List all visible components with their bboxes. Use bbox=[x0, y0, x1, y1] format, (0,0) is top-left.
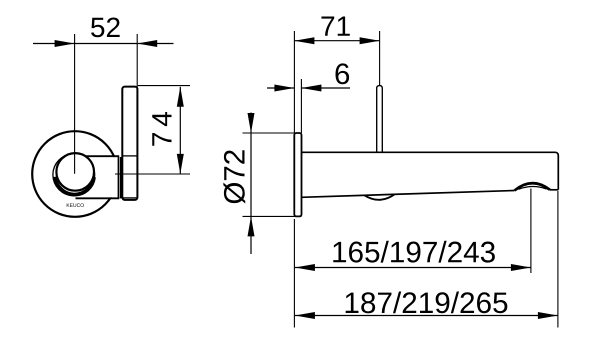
wall plate (left view, side profile) bbox=[122, 87, 137, 200]
dimension 165/197/243 label bbox=[333, 241, 495, 263]
dimension diameter 72 top extension bbox=[243, 132, 295, 134]
dimension 74 arrow down bbox=[177, 154, 184, 174]
dimension 74 arrow up bbox=[177, 87, 184, 107]
extension line spout tip bbox=[557, 191, 559, 328]
dimension 187/219/265 arrow left bbox=[295, 312, 315, 319]
wall plate (right view, spout escutcheon) bbox=[294, 133, 301, 216]
dimension 71 extension line right bbox=[379, 31, 381, 86]
cartridge stem rod bbox=[377, 86, 383, 153]
dimension diameter 72 bottom extension bbox=[243, 215, 302, 217]
dimension 71 extension line left bbox=[293, 31, 295, 133]
dimension 71 label bbox=[321, 17, 349, 36]
dimension 74 label (rotated) bbox=[152, 112, 171, 146]
dimension 165/197/243 arrow left bbox=[295, 264, 315, 271]
dimension diameter 72 arrow down bbox=[248, 113, 255, 133]
dimension diameter 72 line bbox=[250, 113, 252, 255]
dimension diameter 72 label (rotated) bbox=[223, 150, 245, 203]
spout bottom edge bbox=[302, 191, 515, 198]
knob outer rim circle bbox=[53, 154, 95, 196]
spout outlet hump inner line bbox=[519, 186, 547, 189]
dimension 165/197/243 arrow right bbox=[511, 264, 531, 271]
dimension 6 label bbox=[335, 63, 349, 84]
spout bottom edge at tip bbox=[550, 189, 558, 191]
knob face circle bbox=[56, 153, 94, 191]
dimension 6 left tail with arrow bbox=[267, 87, 294, 89]
dimension 187/219/265 arrow right bbox=[538, 312, 558, 319]
shadow gap between lever and wall plate bbox=[120, 157, 123, 198]
dimension 74 top extension line bbox=[138, 85, 190, 87]
dimension 52 label bbox=[91, 17, 120, 37]
dimension 52 extension line right bbox=[136, 34, 138, 87]
dimension 74 line bbox=[179, 87, 181, 174]
horizontal centerline of handle bbox=[115, 173, 190, 175]
dimension 52 arrow left bbox=[55, 40, 75, 47]
dimension 71 arrow left bbox=[294, 37, 314, 44]
dimension 52 line bbox=[33, 43, 174, 45]
dimension 6 extension line bbox=[300, 79, 302, 133]
dimension 187/219/265 label bbox=[346, 291, 508, 313]
dimension diameter 72 arrow up bbox=[248, 216, 255, 236]
dimension 165/197/243 line bbox=[295, 267, 531, 269]
aerator arc under spout bbox=[365, 194, 395, 199]
plate interior line bottom bbox=[123, 197, 138, 199]
extension line outlet center bbox=[530, 189, 532, 274]
spout outlet hump bbox=[515, 183, 551, 190]
dimension 71 line bbox=[294, 40, 379, 42]
dimension 6 right tail with arrow bbox=[301, 87, 350, 89]
dimension 52 arrow right bbox=[137, 40, 157, 47]
dimension 187/219/265 line bbox=[295, 315, 558, 317]
extension line wall face bottom bbox=[293, 219, 295, 328]
escutcheon circle (handle rosette) bbox=[32, 131, 118, 217]
plate interior line top bbox=[123, 155, 138, 157]
knob bottom crescent arc bbox=[55, 177, 94, 195]
dimension 71 arrow right bbox=[360, 37, 380, 44]
vertical centerline of handle bbox=[74, 34, 76, 174]
KEUCO logo text bbox=[67, 203, 84, 207]
dimension 6 arrow right bbox=[301, 85, 321, 92]
dimension 6 arrow left bbox=[274, 85, 294, 92]
spout top and right edge bbox=[302, 152, 559, 190]
lever cylinder bbox=[76, 156, 120, 198]
